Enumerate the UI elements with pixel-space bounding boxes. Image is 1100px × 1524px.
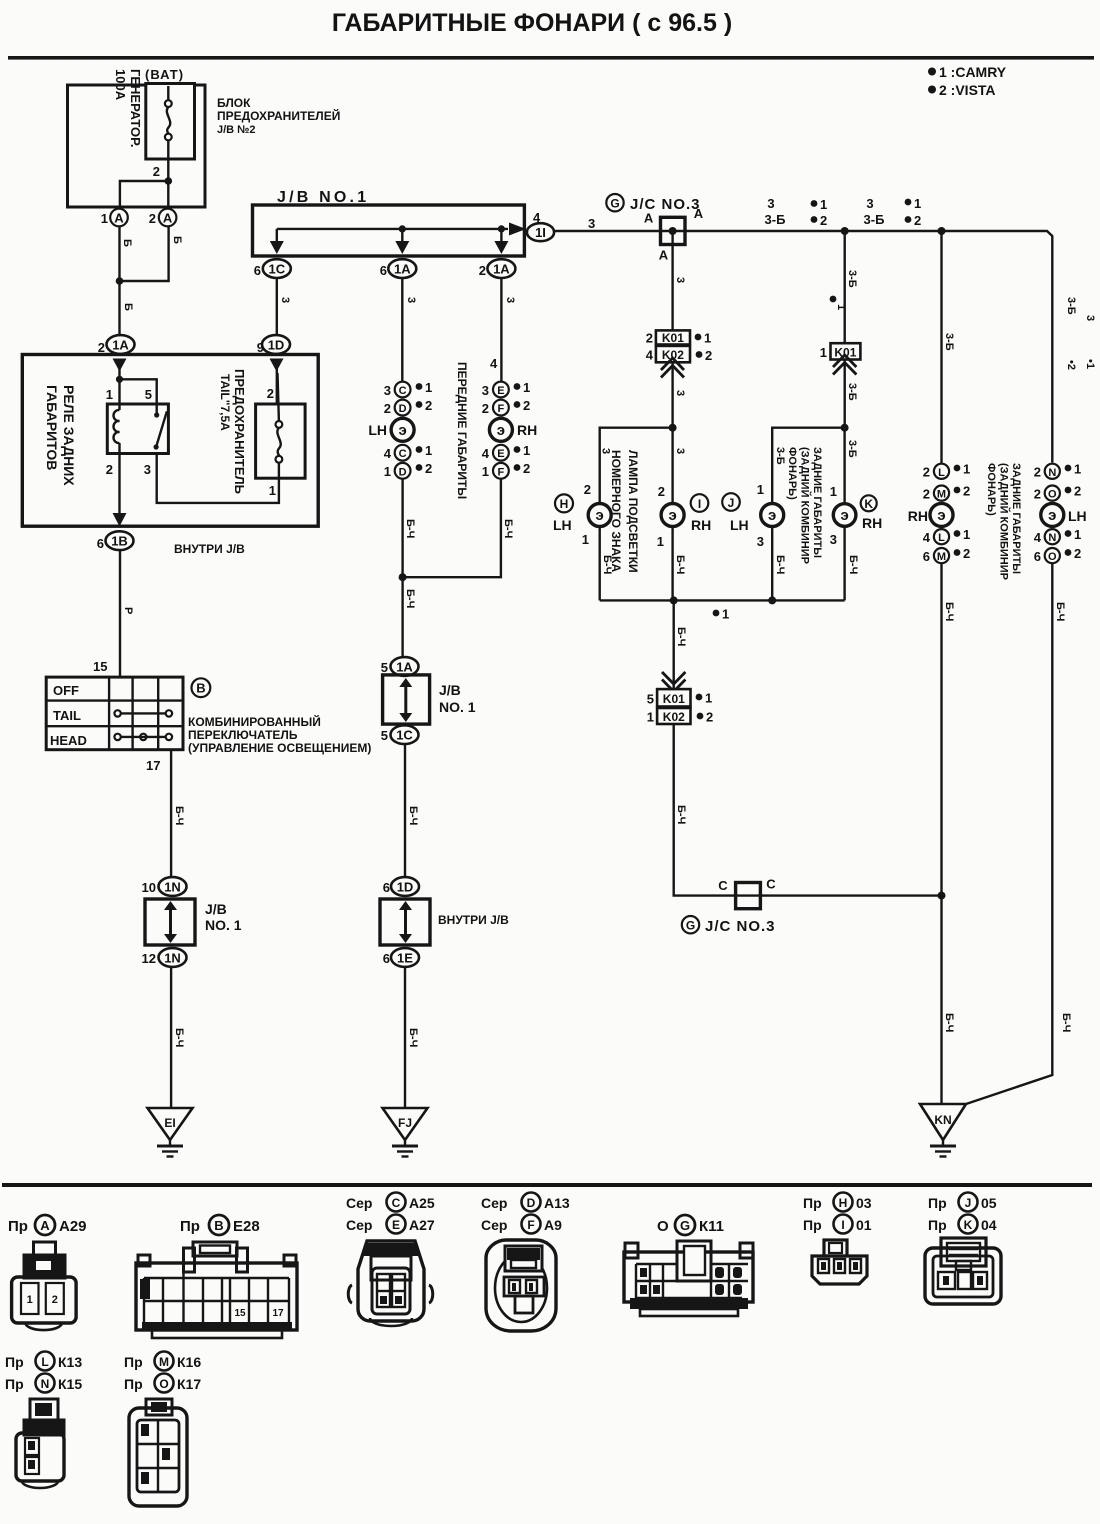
junction dot mid — [841, 227, 849, 235]
J/C NO.3 bottom label — [705, 918, 776, 935]
svg-text:2: 2 — [425, 398, 432, 413]
svg-text:A: A — [163, 211, 173, 226]
wire 5(1C) down — [404, 744, 406, 877]
svg-text:К17: К17 — [177, 1376, 201, 1392]
node A right — [694, 206, 704, 221]
svg-text:B: B — [196, 681, 205, 696]
legend CAMRY/VISTA — [928, 64, 1007, 98]
svg-text:1: 1 — [647, 710, 654, 725]
svg-text:L: L — [938, 532, 945, 544]
svg-text:ПРЕДОХРАНИТЕЛЕЙ: ПРЕДОХРАНИТЕЛЕЙ — [217, 108, 340, 123]
wire down to 2(1A) — [118, 281, 120, 336]
svg-text:Б-Ч: Б-Ч — [675, 627, 687, 646]
svg-text:3-Б: 3-Б — [864, 212, 885, 227]
wire label Б-Ч — [675, 627, 687, 646]
connector 03/01 drawing — [812, 1240, 867, 1284]
svg-text:10: 10 — [142, 880, 156, 895]
svg-text:C: C — [392, 1196, 401, 1210]
wire 2(1A) down — [500, 278, 502, 382]
svg-text:Б-Ч: Б-Ч — [173, 1028, 185, 1047]
label БЛОК ПРЕДОХРАНИТЕЛЕЙ J/B No2 — [217, 96, 340, 136]
svg-text:1: 1 — [820, 197, 827, 212]
wire label 3 rotated left edge — [600, 448, 612, 454]
svg-text:1: 1 — [657, 534, 664, 549]
svg-text:1: 1 — [914, 196, 921, 211]
wire label 3 — [279, 297, 291, 303]
svg-text:2: 2 — [98, 340, 105, 355]
svg-text:1: 1 — [1074, 462, 1081, 477]
wire pin 17 down — [170, 750, 172, 878]
wire label Б-Ч — [943, 1013, 955, 1032]
pin 4 mark — [490, 356, 498, 371]
svg-text:2: 2 — [914, 213, 921, 228]
svg-text:4: 4 — [646, 348, 654, 363]
connector K13/K15 drawing — [16, 1399, 64, 1488]
relay coil — [113, 379, 119, 453]
wire label Б-Ч — [404, 589, 416, 608]
wire label Б-Ч — [407, 1028, 419, 1047]
svg-text:E: E — [497, 448, 504, 460]
wire LH rear down — [1051, 563, 1053, 1072]
svg-text:E: E — [392, 1218, 400, 1232]
svg-text:1A: 1A — [493, 262, 510, 277]
svg-text:(УПРАВЛЕНИЕ ОСВЕЩЕНИЕМ): (УПРАВЛЕНИЕ ОСВЕЩЕНИЕМ) — [188, 741, 371, 755]
junction front columns — [399, 573, 407, 581]
svg-text:О: О — [657, 1218, 669, 1235]
svg-text:I: I — [698, 497, 701, 511]
connector K16/K17 drawing — [129, 1399, 187, 1506]
svg-text:ЗАДНИЕ ГАБАРИТЫ(ЗАДНИЙ КОМБИНИ: ЗАДНИЕ ГАБАРИТЫ(ЗАДНИЙ КОМБИНИРФОНАРЬ) — [786, 447, 823, 564]
rear lamp LH — [757, 482, 784, 549]
entry arrow pin 9(1D) — [270, 359, 284, 405]
bus drop arrow to 1C — [270, 229, 284, 254]
svg-text:J: J — [965, 1196, 972, 1210]
connector 05/04 drawing — [925, 1238, 1001, 1304]
junction dot right — [938, 227, 946, 235]
ground FJ — [383, 1108, 428, 1157]
connector A25/A27 drawing — [348, 1241, 433, 1326]
license plate lamp box — [600, 428, 845, 601]
svg-text:1: 1 — [269, 483, 276, 498]
wire labels right column — [1065, 297, 1096, 370]
wire label 3 rotated — [674, 390, 686, 396]
svg-text:Б: Б — [171, 236, 183, 244]
connector 6(1C) — [254, 259, 291, 278]
ground EI — [148, 1108, 193, 1157]
wire 6(1A) down — [401, 278, 403, 382]
svg-text:э: э — [668, 507, 676, 524]
wire label Б-Ч — [675, 805, 687, 824]
svg-text:6: 6 — [383, 880, 390, 895]
svg-text:Б-Ч: Б-Ч — [774, 555, 786, 574]
connector E28 drawing — [136, 1242, 297, 1338]
svg-text:1: 1 — [482, 464, 489, 479]
variant mark — [830, 296, 847, 311]
svg-text:H: H — [839, 1196, 848, 1210]
svg-text:3: 3 — [384, 383, 391, 398]
svg-text:2: 2 — [52, 1294, 58, 1306]
svg-text:A: A — [40, 1218, 50, 1233]
connector circle K — [861, 495, 877, 511]
label O (G) K11 — [657, 1215, 724, 1235]
svg-text:G: G — [680, 1218, 690, 1233]
wire fuse down to pin 2A — [167, 181, 169, 208]
label RH rear — [862, 515, 882, 531]
front RH connector 2(F) — [482, 398, 530, 416]
junction of Б wires — [116, 277, 124, 285]
connector 12(1N) — [142, 948, 187, 967]
tail fuse symbol — [276, 373, 283, 478]
connector 5 K01 — [647, 689, 712, 706]
svg-text:3: 3 — [588, 216, 595, 231]
label RH — [691, 517, 711, 533]
front RH connector 1(F) — [482, 461, 530, 479]
svg-text:H: H — [560, 497, 569, 511]
svg-text:4: 4 — [482, 446, 490, 461]
svg-text:Пр: Пр — [180, 1218, 200, 1235]
svg-text:F: F — [498, 466, 505, 478]
svg-text:Б-Ч: Б-Ч — [943, 602, 955, 621]
svg-text:1E: 1E — [397, 951, 413, 966]
fuse 100A symbol — [165, 86, 172, 181]
title — [332, 9, 732, 37]
node A bottom — [659, 248, 669, 263]
wire RH rear down to C junction — [940, 563, 942, 895]
connector 6(1A) — [380, 259, 417, 278]
bottom separator rule — [2, 1183, 1092, 1187]
svg-text:B: B — [214, 1218, 223, 1233]
svg-text:03: 03 — [856, 1195, 872, 1211]
svg-text:Б-Ч: Б-Ч — [407, 806, 419, 825]
wire label 3 — [405, 297, 417, 303]
svg-text:Б-Ч: Б-Ч — [404, 589, 416, 608]
rear marker lamp LH — [1041, 503, 1087, 526]
wire label 3 — [588, 216, 595, 231]
svg-text:17: 17 — [272, 1308, 284, 1319]
svg-text:1: 1 — [830, 484, 837, 499]
svg-text:KN: KN — [934, 1113, 951, 1127]
svg-text:3: 3 — [504, 297, 516, 303]
wire label Б — [122, 303, 134, 311]
junction connector C box — [736, 883, 761, 909]
variant mark under bottom wire — [713, 607, 730, 622]
svg-text:КОМБИНИРОВАННЫЙ: КОМБИНИРОВАННЫЙ — [188, 714, 321, 729]
rear lamp RH — [830, 484, 856, 600]
svg-text:3-Б: 3-Б — [846, 270, 858, 288]
svg-text:C: C — [718, 878, 728, 893]
wire to ground FJ — [404, 967, 406, 1108]
svg-text:3: 3 — [674, 390, 686, 396]
exit arrow to 6(1B) — [113, 513, 127, 526]
svg-text:E: E — [497, 385, 504, 397]
svg-text:LH: LH — [553, 517, 572, 533]
svg-text:M: M — [937, 489, 946, 501]
svg-text:D: D — [399, 403, 407, 415]
J/C NO.3 id circle G — [606, 194, 623, 211]
svg-text:Пр: Пр — [928, 1217, 947, 1233]
svg-text:G: G — [610, 197, 619, 211]
label ЗАДНИЕ ГАБАРИТЫ (ЗАДНИЙ КОМБИНИР ФОНАРЬ) — [786, 447, 823, 564]
svg-text:2: 2 — [384, 401, 391, 416]
chevron up under K02 — [661, 358, 684, 428]
wire label 3-Б — [846, 383, 858, 401]
connector 5(1C) — [381, 725, 419, 744]
svg-text:3: 3 — [767, 196, 774, 211]
svg-text:1N: 1N — [164, 880, 181, 895]
svg-text:2: 2 — [153, 164, 160, 179]
svg-text:5: 5 — [647, 692, 654, 707]
label ЗАДНИЕ ГАБАРИТЫ (ЗАДНИЙ КОМБИНИР ФОНАРЬ) right — [985, 463, 1022, 580]
label РЕЛЕ ЗАДНИХ ГАБАРИТОВ — [44, 385, 77, 486]
svg-text:RH: RH — [908, 508, 928, 524]
wire label Б-Ч — [1060, 1013, 1072, 1032]
J/B block middle lower — [380, 899, 509, 945]
svg-text:2: 2 — [963, 546, 970, 561]
svg-text:2: 2 — [1074, 546, 1081, 561]
wire label Б-Ч — [943, 602, 955, 621]
junction on rear lamp box — [841, 424, 849, 432]
relay pin 5 label — [145, 387, 152, 402]
svg-text:3: 3 — [866, 196, 873, 211]
svg-text:1: 1 — [722, 607, 729, 622]
generator box — [68, 69, 206, 207]
junction bottom center — [670, 596, 678, 604]
svg-text:O: O — [1048, 489, 1057, 501]
svg-text:5: 5 — [381, 660, 388, 675]
connector 1(A) — [101, 209, 128, 227]
svg-text:А25: А25 — [409, 1195, 435, 1211]
pin 2 label of fusible link — [153, 164, 160, 179]
entry arrow pin 2(1A) — [113, 359, 127, 380]
svg-text:2: 2 — [106, 462, 113, 477]
switch pin 15 label — [93, 659, 107, 674]
svg-text:1C: 1C — [396, 728, 413, 743]
svg-text:А27: А27 — [409, 1217, 435, 1233]
tail fuse box — [256, 404, 306, 478]
wire to ground EI — [170, 967, 172, 1108]
svg-text:9: 9 — [257, 340, 264, 355]
svg-text:A: A — [114, 211, 124, 226]
switch id circle B — [192, 678, 211, 697]
connector 1 K02 — [647, 708, 713, 725]
label Пр (J) 05 / Пр (K) 04 — [928, 1193, 997, 1234]
svg-text:6: 6 — [383, 951, 390, 966]
svg-text:A: A — [659, 248, 669, 263]
relay pin 2 label — [106, 462, 113, 477]
connector A29 drawing — [12, 1242, 77, 1330]
svg-text:1: 1 — [101, 211, 108, 226]
svg-text:HEAD: HEAD — [50, 733, 87, 748]
svg-text:K02: K02 — [663, 710, 685, 724]
bus exit arrow right — [509, 223, 526, 236]
svg-text:1: 1 — [27, 1294, 33, 1306]
svg-text:ПЕРЕКЛЮЧАТЕЛЬ: ПЕРЕКЛЮЧАТЕЛЬ — [188, 728, 298, 742]
main wire right — [685, 231, 1052, 463]
svg-text:3-Б: 3-Б — [774, 447, 786, 465]
svg-text:3-Б: 3-Б — [765, 212, 786, 227]
svg-text:J/C NO.3: J/C NO.3 — [630, 196, 701, 213]
svg-text:D: D — [527, 1196, 536, 1210]
svg-text:1: 1 — [963, 462, 970, 477]
svg-text:1N: 1N — [164, 951, 181, 966]
svg-text:LH: LH — [1068, 508, 1087, 524]
svg-text:ГАБАРИТНЫЕ ФОНАРИ ( с 96.5 ): ГАБАРИТНЫЕ ФОНАРИ ( с 96.5 ) — [332, 9, 732, 37]
svg-text:э: э — [768, 507, 776, 524]
svg-text:01: 01 — [856, 1217, 872, 1233]
svg-text:6: 6 — [97, 536, 104, 551]
svg-text:NO. 1: NO. 1 — [439, 699, 476, 715]
svg-text:Б-Ч: Б-Ч — [407, 1028, 419, 1047]
svg-text:2: 2 — [482, 401, 489, 416]
wire label Б-Ч rear left — [774, 555, 786, 574]
combination light switch B — [46, 677, 183, 750]
wire label 3 / 3-Б group2 — [864, 196, 885, 227]
svg-text:Б-Ч: Б-Ч — [404, 519, 416, 538]
svg-text:3: 3 — [405, 297, 417, 303]
connector 1I — [527, 223, 554, 241]
junction connector J/C No.3 — [661, 217, 686, 244]
connector circle I — [691, 494, 709, 512]
bus drop arrow to 2(1A) — [494, 225, 508, 254]
svg-text:1I: 1I — [535, 225, 546, 240]
svg-text:I: I — [841, 1218, 844, 1232]
connector 2(A) — [149, 209, 177, 227]
label ВНУТРИ J/B — [174, 542, 245, 556]
connector 6(1B) — [97, 531, 134, 551]
node C right — [766, 877, 776, 892]
wire K02 down to C wire — [674, 724, 942, 896]
svg-text:1: 1 — [106, 387, 113, 402]
connector 2 K01 — [646, 330, 711, 345]
svg-text:1: 1 — [523, 443, 530, 458]
svg-text:Р: Р — [122, 607, 134, 614]
svg-text:4: 4 — [384, 446, 392, 461]
svg-text:2: 2 — [923, 487, 930, 502]
svg-text:ЗАДНИЕ ГАБАРИТЫ(ЗАДНИЙ КОМБИНИ: ЗАДНИЕ ГАБАРИТЫ(ЗАДНИЙ КОМБИНИРФОНАРЬ) — [985, 463, 1022, 580]
wire 2A down and jog — [120, 226, 169, 281]
svg-text:L: L — [938, 467, 945, 479]
svg-text:3: 3 — [674, 277, 686, 283]
svg-text:ГЕНЕРАТОР.100А: ГЕНЕРАТОР.100А — [113, 69, 143, 147]
wire label 3-Б — [943, 333, 955, 351]
pin 4 mark above 1I — [533, 210, 541, 225]
wire label Б — [171, 236, 183, 244]
wire label 3-Б left edge — [774, 447, 786, 465]
label Пр (H) 03 / Пр (I) 01 — [803, 1193, 872, 1234]
wire label P — [122, 607, 134, 614]
svg-text:2: 2 — [1034, 487, 1041, 502]
wire jog left to pin 1A — [120, 181, 168, 208]
svg-text:Сер: Сер — [346, 1195, 372, 1211]
svg-text:А29: А29 — [59, 1218, 87, 1235]
wire label 3 / 3-Б group1 — [765, 196, 786, 227]
connector 2(1A) — [98, 335, 135, 355]
svg-text:1: 1 — [425, 380, 432, 395]
wire center down from junction — [673, 600, 675, 689]
label Пр (L) K13 / Пр (N) K15 — [5, 1352, 82, 1393]
svg-text:Б-Ч: Б-Ч — [173, 806, 185, 825]
svg-text:(ВАТ): (ВАТ) — [145, 67, 184, 82]
svg-text:1D: 1D — [268, 338, 285, 353]
svg-text:Пр: Пр — [5, 1376, 24, 1392]
svg-text:6: 6 — [923, 549, 930, 564]
svg-text:A: A — [644, 211, 654, 226]
wire junction to 1K01 column — [844, 231, 846, 343]
svg-text:1A: 1A — [394, 262, 411, 277]
svg-text:3: 3 — [757, 534, 764, 549]
front marker lamp LH — [368, 418, 414, 441]
wire label 3 — [504, 297, 516, 303]
svg-text:J/B: J/B — [205, 901, 227, 917]
svg-text:12: 12 — [142, 951, 156, 966]
svg-text:2 :VISTA: 2 :VISTA — [939, 82, 996, 98]
svg-text:05: 05 — [981, 1195, 997, 1211]
svg-text:1: 1 — [757, 482, 764, 497]
front lights label ПЕРЕДНИЕ ГАБАРИТЫ — [455, 362, 469, 499]
tail fuse pin 1 label — [269, 483, 276, 498]
front LH connector 1(D) — [384, 461, 432, 479]
svg-text:1: 1 — [523, 380, 530, 395]
wire label Б-Ч — [407, 806, 419, 825]
internal bus wire — [277, 228, 508, 230]
label Пр (M) K16 / Пр (O) K17 — [124, 1352, 201, 1393]
relay and fuse box (inside J/B) — [22, 355, 318, 527]
svg-text:3: 3 — [279, 297, 291, 303]
svg-text:A: A — [694, 206, 704, 221]
relay contacts — [154, 411, 167, 449]
svg-text:15: 15 — [93, 659, 107, 674]
front RH connector 3(E) — [482, 380, 530, 398]
svg-text:1: 1 — [704, 331, 711, 346]
svg-text:1: 1 — [384, 464, 391, 479]
svg-text:4: 4 — [533, 210, 541, 225]
svg-text:Б-Ч: Б-Ч — [1060, 1013, 1072, 1032]
svg-text:K: K — [964, 1218, 973, 1232]
label Сер (C) A25 / Сер (E) A27 — [346, 1193, 435, 1234]
chevron down above 5K01 — [662, 672, 685, 692]
switch HEAD contacts — [114, 734, 172, 740]
switch label — [188, 714, 371, 755]
svg-text:5: 5 — [381, 728, 388, 743]
svg-text:Пр: Пр — [5, 1354, 24, 1370]
relay body — [107, 404, 168, 454]
connector A13/A9 drawing — [486, 1240, 556, 1331]
front LH connector 2(D) — [384, 398, 432, 416]
svg-text:3: 3 — [830, 532, 837, 547]
top border rule — [8, 56, 1094, 60]
svg-text:К11: К11 — [699, 1218, 724, 1235]
junction bottom rear box — [768, 596, 776, 604]
wire down to KN ground — [940, 896, 942, 1104]
svg-text:Сер: Сер — [481, 1195, 507, 1211]
wire label Б-Ч — [404, 519, 416, 538]
junction under fuse — [165, 177, 173, 185]
connectors RH rear stack — [923, 462, 970, 480]
rear combination lamp box — [772, 428, 844, 601]
J/C NO.3 label — [630, 196, 701, 213]
svg-text:К13: К13 — [58, 1354, 82, 1370]
wire relay pin3 to fuse — [157, 454, 279, 503]
svg-text:1C: 1C — [268, 262, 285, 277]
svg-text:Пр: Пр — [928, 1195, 947, 1211]
svg-text:Сер: Сер — [346, 1217, 372, 1233]
J/B NO.1 top label — [277, 189, 369, 206]
svg-text:N: N — [1048, 532, 1056, 544]
lamp license RH — [657, 484, 684, 600]
label Пр (B) E28 — [180, 1215, 260, 1235]
wire to contact 5 — [120, 379, 157, 413]
node A left — [644, 211, 654, 226]
